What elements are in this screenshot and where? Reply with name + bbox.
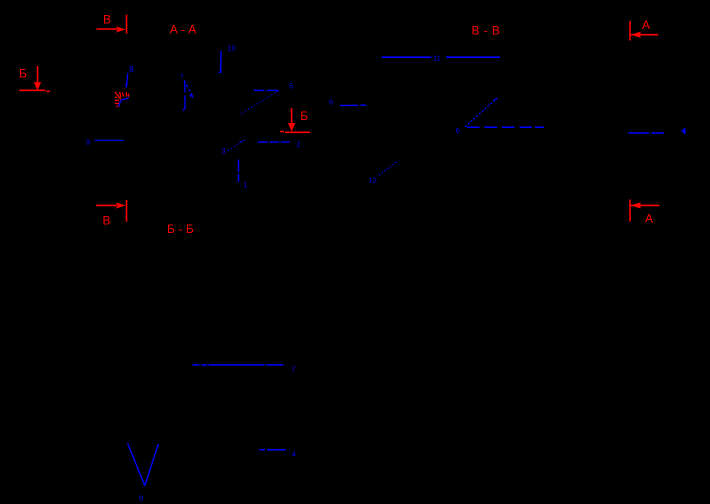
svg-text:А: А bbox=[642, 18, 650, 32]
svg-text:В: В bbox=[103, 214, 111, 228]
leader 12 dotted diagonal bbox=[379, 161, 398, 175]
leader 7 bottom dashes bbox=[192, 364, 283, 366]
section mark В bottom bbox=[96, 200, 127, 222]
section arrow А top-right head bbox=[631, 32, 641, 38]
leader 10 bbox=[219, 51, 222, 73]
svg-text:4: 4 bbox=[292, 449, 296, 458]
leader 3 dotted diagonal bbox=[228, 143, 240, 151]
leader 7 vertical bbox=[183, 81, 185, 111]
svg-text:Б-Б: Б-Б bbox=[167, 222, 197, 236]
svg-text:7: 7 bbox=[291, 365, 295, 374]
section mark В top bbox=[97, 15, 127, 34]
svg-text:Б: Б bbox=[300, 109, 308, 123]
svg-text:6: 6 bbox=[329, 99, 333, 106]
svg-text:11: 11 bbox=[433, 53, 441, 62]
label 4 right (solid glyph) bbox=[680, 128, 686, 133]
section arrow В bottom head bbox=[116, 202, 125, 208]
leader 7 arrow diagonal bbox=[184, 80, 192, 94]
svg-text:Б: Б bbox=[19, 67, 27, 81]
svg-text:2: 2 bbox=[296, 139, 300, 148]
svg-text:1: 1 bbox=[243, 181, 247, 190]
V weld symbol right arm bbox=[145, 444, 159, 486]
svg-text:10: 10 bbox=[227, 43, 235, 52]
section arrow В top head bbox=[116, 26, 125, 32]
section arrow Б left head bbox=[34, 82, 42, 90]
V weld symbol left arm bbox=[128, 443, 145, 486]
leader 5 dotted diagonal bbox=[240, 91, 278, 115]
svg-text:А: А bbox=[645, 212, 653, 226]
leader 2 dashes bbox=[258, 141, 290, 143]
leader 5 horizontal dashes bbox=[254, 89, 277, 91]
leader 6 right diagonal bbox=[465, 98, 497, 127]
section mark Б left bbox=[19, 66, 50, 91]
section arrow А bottom-right head bbox=[631, 202, 641, 208]
svg-text:9: 9 bbox=[139, 494, 143, 503]
leader 5 junction tick bbox=[276, 90, 278, 92]
svg-text:3: 3 bbox=[222, 146, 226, 155]
section mark Б right bbox=[280, 108, 310, 132]
svg-text:12: 12 bbox=[369, 176, 377, 185]
leader 9 left bbox=[95, 139, 124, 141]
section mark А top-right bbox=[630, 21, 658, 41]
fan blue arc bbox=[118, 97, 129, 107]
svg-text:А-А: А-А bbox=[170, 23, 200, 37]
leader 6 right horizontal dashes bbox=[467, 126, 544, 128]
leader 6 middle dashes bbox=[340, 104, 366, 106]
leader 11 line bbox=[382, 56, 500, 58]
svg-text:В: В bbox=[103, 13, 111, 27]
leader 8 bbox=[126, 73, 128, 88]
svg-text:В-В: В-В bbox=[472, 23, 505, 37]
section arrow Б right head bbox=[288, 123, 296, 131]
leader 4 right dashes bbox=[629, 132, 665, 134]
svg-text:5: 5 bbox=[289, 81, 293, 90]
svg-text:6: 6 bbox=[456, 126, 460, 135]
leader 1 vertical dashes bbox=[238, 160, 240, 182]
leader 4 bottom dashes bbox=[259, 449, 286, 451]
svg-text:8: 8 bbox=[129, 65, 134, 74]
svg-text:9: 9 bbox=[86, 138, 90, 147]
fan red rays (spring symbol) bbox=[115, 92, 129, 106]
section mark А bottom-right bbox=[630, 200, 659, 222]
